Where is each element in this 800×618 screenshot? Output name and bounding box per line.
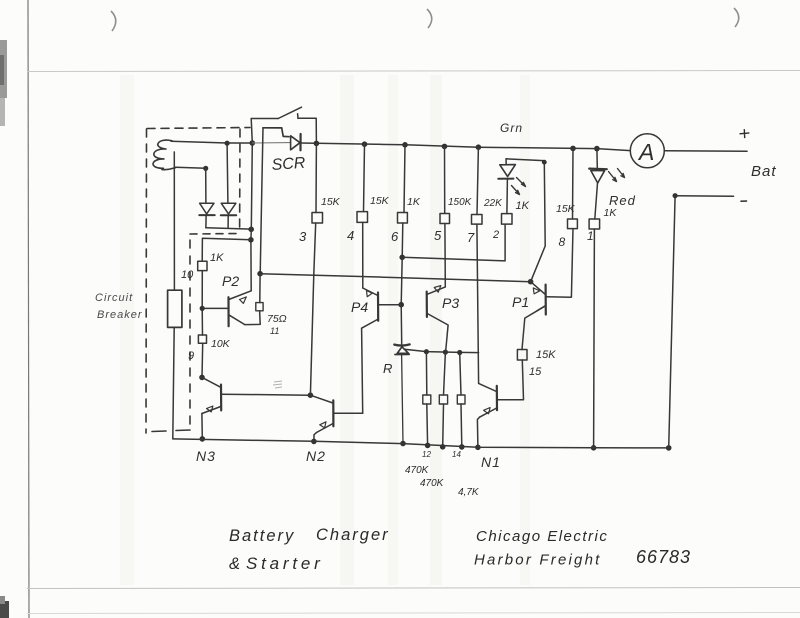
node transformer top tap [225, 141, 230, 146]
transistor N1 base wire [497, 360, 523, 400]
node rail col6 [402, 142, 408, 148]
svg-text:150K: 150K [448, 197, 473, 208]
node col6 / LED return wire [399, 254, 405, 260]
red LED light arrows [609, 172, 617, 182]
node rail col5 [442, 144, 448, 150]
svg-text:470K: 470K [405, 465, 430, 476]
zener diode R cathode bar [394, 344, 409, 345]
node N3 emitter on rail [200, 436, 206, 442]
svg-text:SCR: SCR [271, 155, 306, 174]
transistor N2 bar [332, 400, 334, 426]
wire 1K to P2 base node [201, 271, 203, 309]
wire col5 upper [444, 146, 446, 213]
switch S1 wire left [251, 118, 278, 120]
wire long bases rail [260, 274, 530, 282]
transformer coil T1 [153, 140, 176, 170]
zener diode R bottom tick [395, 353, 409, 355]
punch hole mark 3 [734, 8, 739, 27]
wire red LED to 1K [595, 183, 598, 219]
svg-text:1K: 1K [210, 252, 224, 264]
svg-text:Breaker: Breaker [97, 309, 143, 321]
resistor R13 (470K) column b [444, 352, 446, 395]
node rail col3 [314, 141, 320, 147]
transistor N2 emitter with arrow [317, 423, 334, 432]
label plus [740, 129, 750, 138]
svg-text:15K: 15K [536, 349, 556, 361]
node SCR anode junction [250, 140, 256, 146]
resistor R4 (15K) body [357, 212, 368, 223]
svg-text:P2: P2 [222, 273, 239, 289]
svg-text:75Ω: 75Ω [267, 313, 287, 325]
dashed shield box bottom edge [190, 233, 239, 236]
svg-text:4: 4 [347, 228, 354, 243]
svg-text:&: & [229, 555, 240, 573]
svg-text:Starter: Starter [246, 554, 324, 573]
bottom rule line [27, 588, 800, 589]
node bias row 470K-b [443, 350, 448, 355]
transistor P1 collector wire [546, 229, 573, 298]
dashed shield inner vertical edge [189, 240, 191, 428]
dashed shield bottom dashes [152, 430, 190, 432]
wire 15K up to P1 base [522, 306, 545, 350]
svg-text:Grn: Grn [500, 121, 523, 135]
wire col1 down to bottom rail [593, 229, 596, 448]
resistor R15 (15K P1 base) body [517, 350, 527, 361]
ammeter A1 circle [630, 134, 664, 168]
transistor P4 bar [377, 293, 379, 321]
svg-text:22K: 22K [483, 198, 503, 209]
svg-text:3: 3 [299, 229, 307, 244]
node transformer lower tap [203, 166, 208, 171]
scanner smudge bottom-left [0, 601, 9, 618]
green LED D3 triangle [500, 165, 516, 177]
svg-text:470K: 470K [420, 478, 445, 489]
wire 1K top horizontal [202, 238, 251, 261]
resistor R3 (15K) body [312, 213, 323, 224]
SCR U1 triangle [291, 136, 300, 150]
SCR U1 cathode wire [301, 142, 317, 144]
wire N2 base up to P4 collector [362, 328, 363, 413]
wire bases node down to zener [400, 305, 403, 344]
wire circuit breaker to bottom rail [173, 327, 174, 439]
resistor R8 (15K) body [568, 219, 578, 229]
node green LED corner [542, 160, 547, 165]
transistor P4 emitter with arrow [363, 288, 378, 296]
svg-text:Battery: Battery [229, 527, 295, 545]
transistor N3 collector lead [202, 377, 221, 387]
svg-text:6: 6 [391, 229, 399, 244]
svg-text:11: 11 [270, 326, 279, 336]
node zener on rail [400, 441, 406, 447]
node bias row 470K-a [424, 349, 429, 354]
node rail col1 [594, 146, 600, 152]
wire col4 lower to P4 emitter [362, 222, 364, 288]
resistor R12 (470K) column a [425, 352, 427, 395]
svg-text:7: 7 [467, 230, 475, 245]
transistor N3 bar [220, 385, 222, 411]
svg-text:N1: N1 [481, 454, 501, 470]
wire top rail [316, 143, 630, 150]
node gate/75ohm/bases junction [257, 271, 263, 277]
wire zener to bottom rail [402, 355, 403, 444]
wire col3 lower to N2 collector node [310, 223, 315, 395]
node P1 emitter / LED link [528, 279, 534, 285]
wire vertical A (SCR anode / P2 emitter bus) [251, 119, 252, 291]
bottom faint rule [27, 613, 800, 614]
svg-text:15K: 15K [321, 196, 341, 208]
wire node to 75ohm resistor [259, 274, 261, 303]
wire transformer top tap to SCR node [171, 141, 227, 143]
wire col6 to cross node [401, 223, 404, 257]
transistor P3 bar [426, 292, 428, 317]
transistor P3 emitter with arrow [427, 287, 445, 294]
SCR U1 cathode bar [299, 134, 301, 150]
resistor R7 (22K) body [472, 215, 483, 225]
green LED D3 cathode bar [498, 178, 513, 180]
diode D2 (right rectifier) [221, 203, 236, 214]
svg-text:2: 2 [492, 229, 499, 241]
wire col7 lower to N1 collector [477, 224, 479, 383]
wire lower tap down to diode D1 [205, 168, 207, 203]
svg-text:Red: Red [609, 193, 636, 208]
transistor P1 bar [544, 285, 546, 315]
punch hole mark 2 [427, 9, 432, 28]
wire LED return (to Grn 1K bottom) [402, 224, 505, 261]
svg-text:10K: 10K [211, 338, 231, 350]
svg-text:Circuit: Circuit [95, 292, 133, 304]
transistor P4 collector lead [362, 319, 379, 328]
transistor P1 emitter with arrow [531, 282, 546, 295]
label minus [740, 200, 747, 202]
dashed shield enclosure right edge [239, 129, 241, 232]
wire SCR gate vertical B down to bases wire [260, 128, 263, 274]
wire 10K down to N3 collector node [201, 343, 204, 377]
wire D1 cathode down [205, 215, 207, 228]
wire zener bias row [405, 349, 479, 352]
wire N1 emitter to rail [477, 417, 479, 447]
wire green LED to 1K [506, 179, 509, 214]
svg-text:Chicago Electric: Chicago Electric [476, 528, 608, 545]
svg-text:5: 5 [434, 228, 442, 243]
SCR U1 anode wire [252, 142, 290, 144]
node right return on rail [666, 445, 672, 451]
dashed shield enclosure left edge [145, 129, 148, 433]
svg-text:P4: P4 [351, 299, 368, 315]
wire green LED link down to P1 node [531, 162, 546, 282]
dashed shield enclosure top edge [147, 128, 250, 129]
transistor N1 bar [496, 386, 498, 410]
svg-text:Harbor Freight: Harbor Freight [474, 552, 602, 569]
wire diode cathode bus [206, 228, 252, 229]
svg-text:8: 8 [559, 235, 566, 249]
transistor P2 bar [227, 297, 229, 326]
circuit breaker CB1 [168, 290, 182, 327]
svg-text:1K: 1K [604, 207, 618, 219]
resistor R5 (150K) body [440, 214, 450, 224]
green LED light arrows [517, 178, 526, 187]
wire col5 lower to P3 emitter [444, 224, 446, 287]
node N2 emitter on rail [311, 439, 317, 445]
svg-text:Bat: Bat [751, 163, 777, 180]
svg-text:14: 14 [452, 450, 461, 459]
transistor P2 base wire [202, 307, 228, 309]
svg-text:1K: 1K [516, 200, 530, 212]
svg-text:15K: 15K [370, 195, 390, 207]
transistor N2 base wire [334, 412, 363, 414]
svg-text:12: 12 [422, 450, 431, 459]
wire col8 upper [572, 148, 575, 219]
SCR U1 gate bend [263, 128, 289, 137]
wire col6 node down to bases node [401, 257, 402, 304]
svg-text:4,7K: 4,7K [458, 487, 480, 498]
wire transformer lower tap [176, 167, 206, 168]
resistor R75 (75 ohm) body [256, 303, 263, 311]
wire col3 upper [315, 143, 317, 212]
node P2 base [200, 306, 205, 311]
transistor P2 emitter with arrow [229, 291, 251, 300]
resistor R1 (1K) body [589, 219, 600, 229]
node N1 emitter on rail [475, 445, 481, 451]
node 470K-a on rail [425, 443, 431, 449]
wire col7 upper [477, 147, 478, 214]
resistor R6 (1K) body [398, 213, 408, 224]
node bias row 470K-c [457, 350, 462, 355]
wire N3 emitter to rail [201, 414, 203, 439]
wire top tap down to diode D2 [226, 144, 229, 204]
svg-text:1K: 1K [407, 196, 421, 208]
resistor R14 (4.7K) column c [460, 353, 461, 396]
svg-text:Charger: Charger [316, 526, 390, 544]
green LED jog wire [506, 159, 544, 164]
switch S1 wire right [298, 118, 316, 143]
node col1 on rail [591, 445, 597, 451]
scanner edge smudge top-left [0, 40, 7, 98]
svg-text:A: A [637, 139, 654, 165]
svg-text:15: 15 [529, 366, 542, 378]
wire battery minus [675, 195, 734, 198]
transformer primary lead down [173, 152, 175, 290]
wire P2 base node to 10K [201, 308, 203, 335]
zener diode R triangle [397, 347, 408, 354]
resistor R10 (1K) body [198, 261, 207, 270]
switch S1 blade [278, 107, 301, 118]
svg-text:P3: P3 [442, 295, 459, 311]
transistor N2 collector lead [310, 395, 333, 403]
svg-text:P1: P1 [512, 294, 529, 310]
svg-text:15K: 15K [556, 203, 576, 215]
svg-text:10: 10 [181, 269, 194, 281]
svg-text:1: 1 [587, 229, 594, 243]
wire bottom rail [173, 439, 669, 448]
resistor R2 (1K) body [502, 214, 513, 225]
transistor N3 base wire to N2 node [221, 394, 310, 395]
wire red LED from rail [596, 149, 598, 168]
svg-text:N3: N3 [196, 448, 216, 464]
faint pencil smudge near N3-N2 wire [273, 381, 282, 388]
resistor R9 (10K) body [198, 335, 206, 343]
transistor N1 emitter with arrow [480, 408, 497, 417]
svg-text:9: 9 [188, 350, 194, 362]
wire 75ohm to P2 collector [245, 311, 260, 325]
punch hole mark 1 [111, 11, 116, 31]
wire col6 upper [404, 145, 405, 213]
node 1K top wire junction [248, 237, 254, 243]
transistor P2 collector [229, 315, 245, 325]
notebook left margin line [28, 0, 29, 618]
transistor P1 base lead [537, 306, 545, 311]
red LED D4 cathode bar [589, 168, 607, 171]
wire top tap node to vertical A [227, 142, 252, 144]
wire D2 cathode down [227, 215, 229, 228]
node diode bus to vertical A [248, 227, 254, 233]
wire N2 emitter to rail [314, 433, 317, 442]
top rule line [27, 71, 800, 72]
transistor P3 collector lead [427, 314, 448, 352]
transistor N3 emitter with arrow [202, 407, 221, 414]
wire ammeter to battery plus [664, 150, 747, 152]
node rail col8 [570, 146, 576, 152]
transistor P4 base wire [378, 304, 401, 306]
wire right return vertical [669, 196, 675, 448]
node 470K-c on rail [459, 444, 465, 450]
node rail col4 [362, 141, 368, 147]
svg-text:N2: N2 [306, 448, 326, 464]
node 470K-b on rail [440, 444, 446, 450]
node battery minus corner [673, 193, 678, 198]
node P4/P3 bases [398, 302, 404, 308]
node N2 collector / N3 base [308, 392, 314, 398]
svg-text:R: R [383, 361, 392, 376]
red LED D4 triangle [591, 171, 605, 184]
node rail col7 [476, 144, 482, 150]
transistor N1 collector lead [479, 383, 497, 391]
faint scanner streaks [340, 75, 354, 585]
node N3 collector [199, 375, 205, 381]
svg-text:66783: 66783 [636, 547, 691, 567]
wire col4 upper [364, 144, 365, 211]
diode D1 (left rectifier) [200, 203, 214, 214]
switch S1 contact tick [297, 114, 299, 119]
